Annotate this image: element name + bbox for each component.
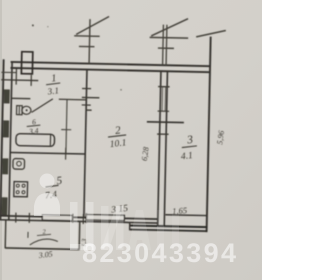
room3 window inner line: [165, 214, 206, 217]
balcony fraction bar: [37, 234, 51, 236]
watermark person body: [34, 193, 60, 216]
kitchen window: [42, 215, 72, 221]
room2/room3 wall right line: [164, 71, 167, 225]
duct inner line right: [164, 87, 167, 111]
room 2 fraction bar: [108, 135, 126, 138]
bottom-right outer wall lower line: [129, 229, 207, 231]
room 5 fraction bar: [45, 185, 58, 187]
duct rung 2: [158, 110, 169, 112]
duct rung 1: [158, 86, 169, 88]
speck dot 1: [32, 24, 34, 26]
toilet tank: [17, 106, 23, 115]
chimney symbol 2 flag diagonal: [151, 18, 188, 37]
bottom wall tick 3: [82, 214, 84, 224]
bottom wall tick 1: [15, 213, 17, 223]
stove burner 2: [22, 184, 25, 187]
balcony door swing arc: [30, 239, 58, 246]
bottom wall tick 5: [85, 213, 87, 223]
left wall hatch block 4: [1, 197, 7, 215]
bathtub end line: [49, 135, 51, 146]
watermark letter I: [101, 206, 124, 250]
room 1 fraction bar: [46, 83, 60, 85]
paper left edge shade: [0, 0, 2, 280]
long crossing line: [147, 121, 184, 124]
duct inner line left: [161, 87, 164, 111]
hallway/bathroom wall: [12, 97, 30, 99]
step connector: [129, 222, 131, 229]
chimney symbol 3 slanted bar: [196, 30, 226, 38]
stove burner 4: [22, 191, 25, 194]
entry door tick: [30, 75, 32, 86]
chimney symbol 1 flag diagonal: [76, 16, 109, 35]
bottom-right outer wall upper line: [129, 225, 207, 227]
balcony right rail: [78, 221, 81, 249]
flue tick 3 on partition: [82, 104, 91, 106]
svg-text:3.4: 3.4: [28, 126, 40, 136]
chimney symbol 2 riser right line: [165, 25, 168, 65]
entry upper stub line: [1, 71, 16, 73]
watermark group (not rotated): [34, 174, 236, 269]
chimney symbol 1 riser: [88, 19, 91, 63]
left wall hatch block 3: [2, 158, 8, 174]
handwritten labels group (rotated with plan): [24, 72, 227, 264]
watermark letter N: [157, 210, 179, 250]
stove burner 3: [16, 191, 19, 194]
chimney symbol 1 bar: [74, 35, 99, 38]
chimney symbol 1 small bar: [79, 45, 94, 47]
room 3 fraction bar: [182, 146, 197, 148]
partition between left rooms and room 2: [84, 70, 87, 217]
balcony tick: [27, 232, 29, 238]
room2 window: [86, 215, 124, 221]
room 6 fraction bar: [27, 125, 41, 127]
toilet tank inner line: [18, 106, 20, 114]
balcony bottom rail: [5, 248, 79, 250]
kitchen sink: [13, 159, 25, 170]
left exterior wall inner line: [9, 62, 12, 219]
bathroom right wall: [66, 100, 67, 154]
stove burner 1: [16, 184, 19, 187]
left wall hatch block 2: [3, 120, 9, 137]
toilet bowl dot: [26, 109, 28, 111]
bathroom door leaf diagonal: [32, 98, 53, 112]
svg-text:10.1: 10.1: [109, 138, 127, 150]
bathroom/kitchen wall: [11, 152, 85, 154]
right exterior wall: [207, 37, 211, 232]
bathtub: [16, 134, 55, 147]
watermark person head: [40, 174, 55, 189]
flue tick 1 on partition: [82, 87, 91, 89]
entry wall stub: [15, 69, 17, 85]
flue tick 2 long on partition: [82, 96, 99, 98]
speck dot 2: [47, 26, 48, 27]
watermark letter Ts: [70, 202, 94, 250]
flue stub on partition: [86, 109, 92, 111]
svg-text:3.1: 3.1: [46, 85, 59, 96]
top-left wall pier: [21, 52, 32, 74]
bottom wall tick 2: [28, 213, 30, 223]
speck dot 3: [120, 89, 122, 91]
chimney symbol 2 riser left line: [162, 25, 165, 65]
kitchen sink circle: [17, 161, 22, 166]
entry door line: [1, 79, 38, 82]
balcony left rail: [4, 220, 7, 248]
chimney symbol 2 bar: [150, 36, 188, 39]
bottom wall left section lower line: [0, 220, 158, 223]
bottom wall left section upper line: [0, 216, 158, 219]
top exterior wall (double line): [11, 62, 211, 66]
room2/room3 wall left line: [158, 71, 161, 225]
svg-text:823043394: 823043394: [82, 238, 236, 268]
bathroom right wall tick: [61, 129, 71, 131]
kitchen door tick: [65, 148, 67, 160]
chimney symbol 2 small bar: [158, 47, 174, 49]
svg-text:4.1: 4.1: [180, 151, 193, 162]
toilet bowl: [22, 106, 31, 114]
left exterior wall outer line: [0, 59, 3, 219]
watermark letter A: [128, 210, 151, 250]
duct rung 3: [157, 133, 168, 135]
hallway/bathroom wall right part: [59, 98, 86, 101]
svg-text:3.05: 3.05: [37, 249, 53, 260]
left wall hatch block 1: [4, 89, 10, 103]
stove: [14, 182, 28, 197]
bottom wall tick 4: [72, 214, 74, 223]
